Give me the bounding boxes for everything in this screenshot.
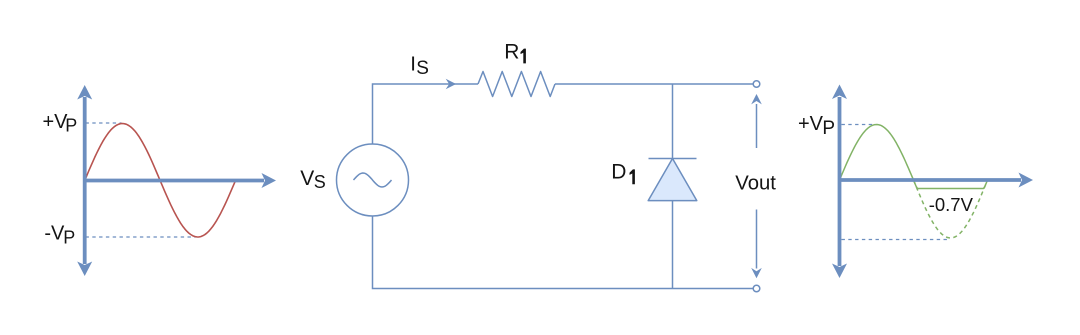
svg-text:+V: +V: [798, 113, 824, 135]
svg-text:S: S: [416, 58, 429, 79]
wire: source bottom to bottom rail: [373, 216, 754, 289]
diode D1 cathode bar: [649, 158, 697, 160]
output terminal (top): [753, 81, 760, 88]
Vout upper arrow (points up toward top terminal): [751, 94, 762, 148]
diode D1 triangle: [648, 159, 697, 201]
svg-text:R: R: [504, 41, 519, 64]
AC source U1 circle: [337, 144, 409, 216]
left input sine wave (red): [85, 124, 236, 238]
node right +Vp dashed level line: [842, 124, 876, 126]
wire: diode branch top (rail to cathode): [672, 84, 674, 159]
svg-text:D: D: [611, 161, 626, 184]
resistor R1 zigzag body: [478, 72, 555, 97]
clipped negative half-cycle (dashed green): [914, 180, 988, 238]
output terminal (bottom): [753, 285, 760, 292]
svg-text:Vout: Vout: [735, 172, 776, 194]
output waveform solid (green, clipped at -0.7V): [840, 125, 988, 189]
svg-text:S: S: [314, 172, 326, 192]
wire: top rail left segment (source top to resistor): [373, 84, 479, 144]
svg-text:-0.7V: -0.7V: [929, 194, 974, 215]
right graph horizontal axis: [840, 173, 1034, 188]
node right -Vp dashed level line: [842, 239, 951, 241]
wire: diode bottom to bottom rail: [672, 201, 674, 289]
node left -Vp dashed level line: [86, 236, 197, 238]
svg-text:P: P: [65, 116, 77, 136]
Vout lower arrow (points down toward bottom terminal): [751, 210, 762, 279]
left graph vertical axis: [77, 85, 92, 276]
AC source sine symbol: [354, 173, 392, 187]
node left +Vp dashed level line: [86, 122, 122, 124]
svg-text:-V: -V: [44, 222, 65, 244]
right graph vertical axis: [832, 85, 847, 279]
svg-text:V: V: [300, 167, 314, 190]
left graph horizontal axis: [85, 173, 276, 188]
svg-text:P: P: [63, 228, 75, 248]
svg-text:P: P: [822, 118, 835, 139]
current arrow Is on top wire: [446, 79, 456, 90]
svg-text:I: I: [410, 52, 416, 75]
wire: top rail right segment (resistor to output terminal): [555, 83, 753, 85]
